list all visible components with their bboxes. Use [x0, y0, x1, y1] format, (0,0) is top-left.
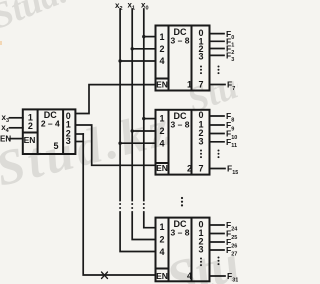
svg-text:4: 4: [159, 247, 164, 257]
decoder U1 DC 3-8 box: [156, 26, 210, 91]
svg-text:1: 1: [159, 114, 164, 124]
label x4: [1, 123, 9, 134]
svg-text:3: 3: [66, 136, 71, 146]
output labels F8-F15: [226, 111, 238, 176]
node junction x0 decoder1: [142, 35, 145, 38]
wire input x3 to decoder 5: [10, 117, 23, 119]
decoder U1 labels: [156, 27, 203, 90]
decoder 4 output wire 7: [210, 275, 226, 277]
wire input x4 to decoder 5: [10, 127, 23, 129]
svg-text:3 – 8: 3 – 8: [171, 35, 190, 45]
svg-text:4: 4: [159, 139, 164, 149]
svg-text:3 – 8: 3 – 8: [171, 227, 190, 237]
svg-text:3: 3: [198, 137, 203, 147]
decoder 1 output wire 3: [210, 54, 225, 56]
wire decoder 5 output 0 to decoder 1 EN: [75, 85, 155, 114]
svg-text:EN: EN: [156, 79, 168, 89]
label EN input: [0, 135, 11, 144]
decoder 2 output wire 0: [210, 115, 225, 117]
decoder U5 labels: [24, 110, 71, 151]
wire input EN to decoder 5: [10, 138, 23, 140]
ellipsis decoder 2 output column: [200, 150, 202, 152]
label x1: [128, 1, 136, 12]
svg-text:1: 1: [159, 222, 164, 232]
svg-text:1: 1: [159, 32, 164, 42]
wire decoder 5 output 3 stub: [75, 141, 83, 143]
node junction x1 decoder2: [131, 129, 134, 132]
output labels F24-F31: [226, 220, 238, 283]
decoder 2 output wire 7: [210, 168, 226, 170]
node junction x1 decoder1: [131, 47, 134, 50]
svg-text:EN: EN: [0, 135, 11, 144]
ellipsis decoder 4 outputs outside: [218, 257, 220, 259]
decoder 1 output wire 1: [210, 40, 225, 42]
wire bus x0 lower segment to decoder 4 input 1: [144, 214, 156, 228]
decoder 4 output wire 2: [210, 241, 225, 243]
decoder 1 output wire 0: [210, 33, 225, 35]
ellipsis decoder 2 outputs outside: [218, 150, 220, 152]
svg-text:4: 4: [159, 56, 164, 66]
ellipsis decoder 1 output column: [200, 66, 202, 68]
wire branch x2 to decoder 2 pin 4: [120, 142, 155, 144]
label x3: [2, 113, 10, 124]
svg-text:2: 2: [28, 121, 33, 131]
svg-text:7: 7: [198, 80, 203, 90]
output labels F0-F7: [226, 29, 235, 92]
wire decoder 5 output 1 to decoder 2 EN: [75, 125, 155, 165]
decoder U5 DC 2-4 box: [23, 109, 76, 154]
decoder U2 labels: [156, 110, 203, 174]
label x2: [115, 1, 123, 12]
wire branch x2 to decoder 1 pin 4: [120, 60, 155, 62]
bus x1 break dots: [131, 203, 133, 205]
svg-text:2: 2: [159, 126, 164, 136]
ellipsis omitted decoder 3: [181, 197, 183, 199]
svg-text:3 – 8: 3 – 8: [171, 120, 190, 130]
svg-text:EN: EN: [156, 163, 168, 173]
svg-text:EN: EN: [156, 271, 168, 281]
node junction x2 decoder2: [118, 142, 121, 145]
wire branch x1 to decoder 2 pin 2: [132, 130, 155, 132]
wire branch x1 to decoder 1 pin 2: [132, 48, 155, 50]
svg-text:5: 5: [53, 141, 58, 151]
bus x2 break dots: [119, 203, 121, 205]
svg-text:3: 3: [198, 245, 203, 255]
wire bus x1 vertical: [131, 9, 133, 201]
decoder U4 DC 3-8 box: [156, 218, 210, 282]
wire bus x1 lower segment to decoder 4 input 2: [132, 214, 155, 240]
svg-text:EN: EN: [24, 135, 36, 145]
wire bus x2 lower segment to decoder 4 input 4: [120, 214, 155, 252]
node junction x2 decoder1: [118, 59, 121, 62]
decoder 4 output wire 1: [210, 233, 225, 235]
decoder 1 output wire 7: [210, 84, 226, 86]
decoder U2 DC 3-8 box: [156, 110, 210, 175]
svg-text:7: 7: [198, 164, 203, 174]
decoder 4 output wire 0: [210, 224, 225, 226]
decoder 2 output wire 2: [210, 133, 225, 135]
decoder 2 output wire 3: [210, 141, 225, 143]
wire decoder 5 output 2 stub: [75, 133, 83, 135]
svg-text:4: 4: [187, 271, 192, 281]
ellipsis decoder 1 outputs outside: [218, 66, 220, 68]
break mark X on decoder 4 EN wire: [102, 272, 108, 279]
svg-text:2 – 4: 2 – 4: [41, 118, 60, 128]
svg-text:2: 2: [187, 164, 192, 174]
wire branch x0 to decoder 2 pin 1: [144, 118, 156, 120]
svg-text:2: 2: [159, 44, 164, 54]
wire bus x2 vertical: [119, 9, 121, 201]
bus x0 break dots: [143, 203, 145, 205]
svg-text:0: 0: [198, 110, 203, 120]
decoder 1 output wire 2: [210, 48, 225, 50]
decoder U4 labels: [156, 219, 203, 281]
node junction x0 decoder2: [142, 117, 145, 120]
decoder 4 output wire 3: [210, 249, 225, 251]
wire bus x0 vertical: [143, 9, 145, 201]
ellipsis decoder 4 output column: [200, 258, 202, 260]
decoder 2 output wire 1: [210, 124, 225, 126]
label x0: [141, 1, 149, 12]
svg-text:2: 2: [159, 235, 164, 245]
wire vertical to decoder 4 EN: [83, 134, 155, 275]
wire branch x0 to decoder 1 pin 1: [144, 36, 156, 38]
svg-text:3: 3: [198, 51, 203, 61]
svg-text:1: 1: [187, 80, 192, 90]
